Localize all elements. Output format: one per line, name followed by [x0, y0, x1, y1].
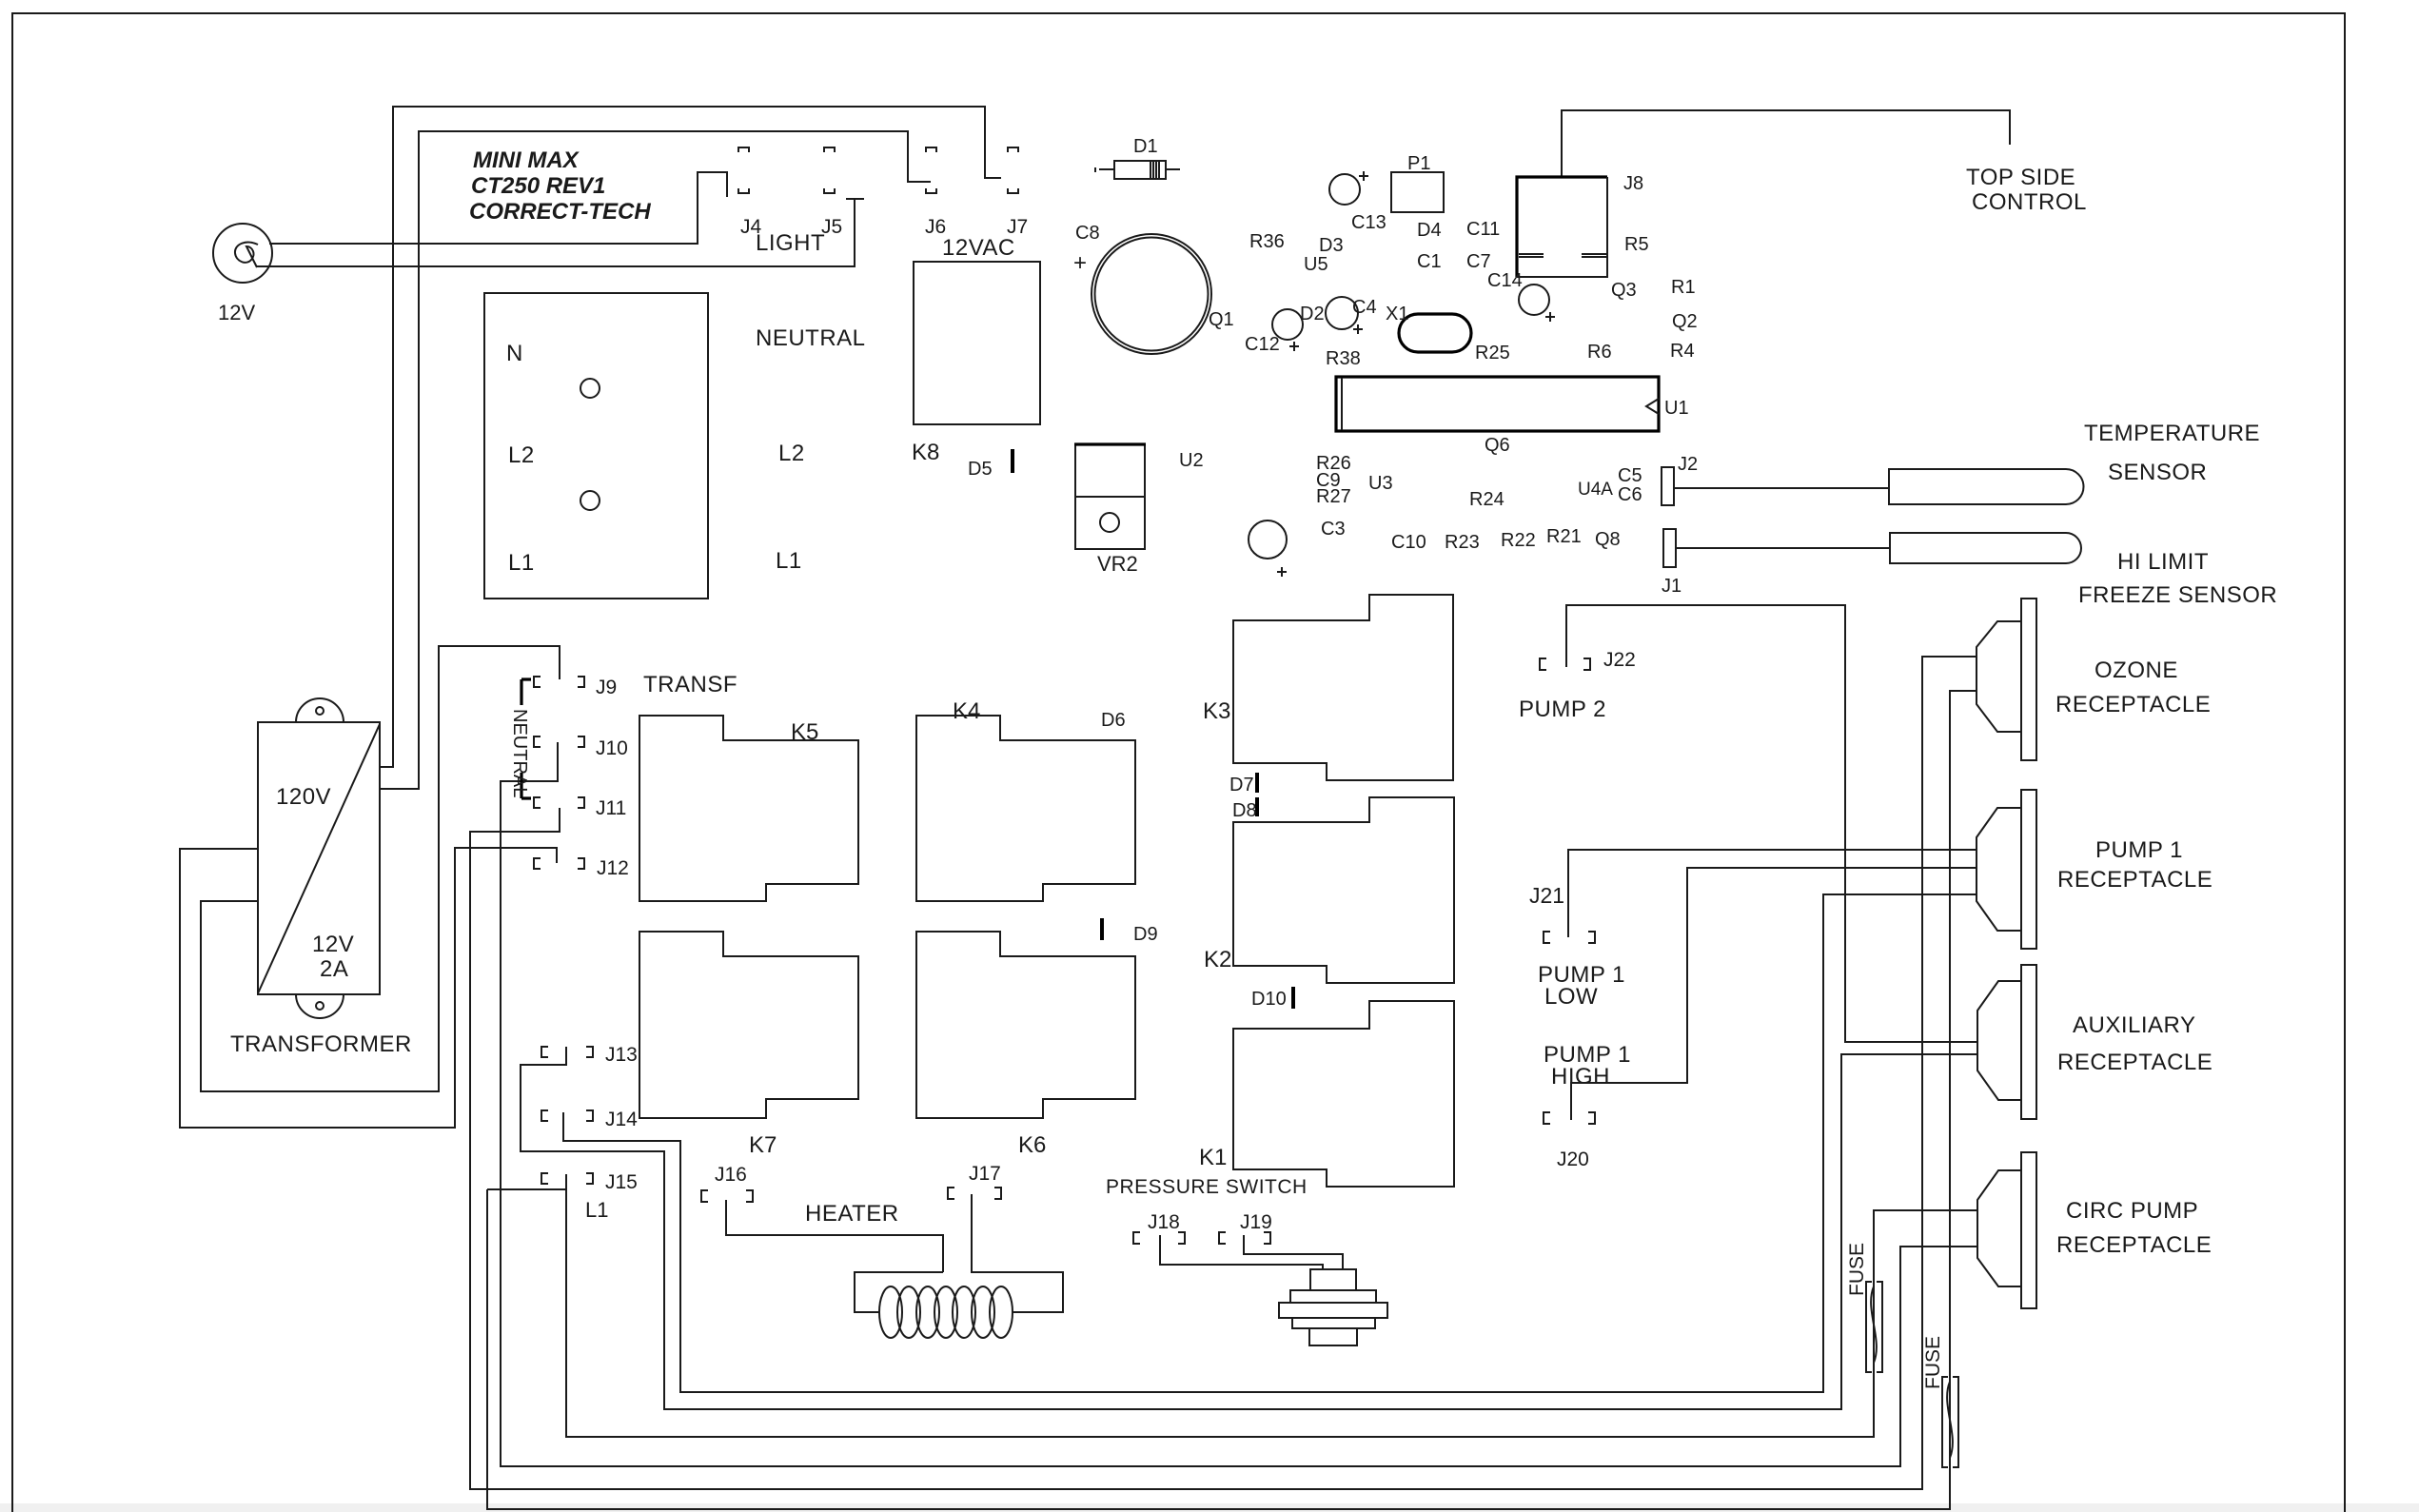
svg-text:C8: C8: [1075, 223, 1100, 244]
svg-text:R27: R27: [1316, 486, 1351, 507]
svg-text:CONTROL: CONTROL: [1972, 189, 2087, 215]
svg-text:HI LIMIT: HI LIMIT: [2117, 549, 2209, 575]
svg-text:L1: L1: [508, 550, 535, 576]
svg-text:12V: 12V: [218, 301, 255, 324]
svg-text:N: N: [506, 341, 523, 366]
svg-text:D8: D8: [1232, 800, 1257, 821]
svg-text:RECEPTACLE: RECEPTACLE: [2057, 867, 2212, 893]
svg-text:K1: K1: [1199, 1145, 1227, 1170]
svg-text:12VAC: 12VAC: [942, 235, 1015, 261]
svg-text:C1: C1: [1417, 251, 1442, 272]
svg-text:J14: J14: [605, 1109, 638, 1130]
svg-text:J19: J19: [1240, 1211, 1272, 1233]
svg-text:L1: L1: [776, 548, 802, 574]
svg-text:R38: R38: [1326, 348, 1361, 369]
svg-text:VR2: VR2: [1097, 552, 1138, 576]
svg-text:D4: D4: [1417, 220, 1442, 241]
svg-text:D1: D1: [1133, 136, 1158, 157]
svg-text:J18: J18: [1148, 1211, 1180, 1233]
svg-text:J1: J1: [1662, 576, 1681, 597]
svg-text:Q1: Q1: [1209, 309, 1234, 330]
svg-text:J11: J11: [596, 797, 626, 819]
svg-text:RECEPTACLE: RECEPTACLE: [2057, 1050, 2212, 1075]
svg-text:LIGHT: LIGHT: [756, 230, 825, 256]
svg-text:CORRECT-TECH: CORRECT-TECH: [469, 199, 651, 225]
svg-text:U3: U3: [1368, 473, 1393, 494]
svg-text:Q2: Q2: [1672, 311, 1698, 332]
svg-text:K6: K6: [1018, 1132, 1046, 1158]
svg-text:C14: C14: [1487, 270, 1523, 291]
svg-text:K5: K5: [791, 719, 818, 745]
svg-text:X1: X1: [1386, 304, 1408, 324]
svg-text:SENSOR: SENSOR: [2108, 460, 2207, 485]
svg-text:K4: K4: [953, 698, 980, 724]
svg-text:NEUTRAL: NEUTRAL: [756, 325, 866, 351]
svg-text:PUMP 2: PUMP 2: [1519, 697, 1606, 722]
svg-text:TEMPERATURE: TEMPERATURE: [2084, 421, 2260, 446]
svg-text:HIGH: HIGH: [1551, 1064, 1610, 1090]
svg-text:C5: C5: [1618, 465, 1642, 486]
svg-text:PUMP 1: PUMP 1: [2095, 837, 2183, 863]
svg-text:J15: J15: [605, 1171, 638, 1193]
svg-text:OZONE: OZONE: [2094, 658, 2178, 683]
svg-text:NEUTRAL: NEUTRAL: [509, 709, 530, 797]
svg-text:U2: U2: [1179, 450, 1204, 471]
svg-text:D7: D7: [1229, 775, 1254, 795]
svg-text:Q8: Q8: [1595, 529, 1621, 550]
svg-text:D2: D2: [1300, 304, 1325, 324]
svg-text:PRESSURE SWITCH: PRESSURE SWITCH: [1106, 1176, 1308, 1198]
svg-text:J21: J21: [1529, 883, 1564, 908]
svg-text:K8: K8: [912, 440, 939, 465]
svg-text:L2: L2: [508, 442, 535, 468]
svg-text:MINI MAX: MINI MAX: [473, 147, 580, 173]
svg-text:AUXILIARY: AUXILIARY: [2073, 1012, 2195, 1038]
svg-text:RECEPTACLE: RECEPTACLE: [2056, 1232, 2212, 1258]
svg-text:U5: U5: [1304, 254, 1328, 275]
svg-text:C11: C11: [1466, 219, 1500, 240]
svg-text:C12: C12: [1245, 334, 1280, 355]
svg-text:CT250 REV1: CT250 REV1: [471, 173, 605, 199]
svg-text:J10: J10: [596, 737, 628, 759]
svg-text:P1: P1: [1407, 153, 1430, 174]
svg-text:D10: D10: [1251, 989, 1287, 1010]
svg-text:U4A: U4A: [1578, 480, 1613, 500]
svg-text:R25: R25: [1475, 343, 1510, 363]
svg-text:FUSE: FUSE: [1922, 1336, 1944, 1389]
svg-text:J20: J20: [1557, 1149, 1589, 1170]
svg-text:K2: K2: [1204, 947, 1231, 972]
svg-text:C4: C4: [1352, 297, 1377, 318]
svg-text:D9: D9: [1133, 924, 1158, 945]
svg-text:R1: R1: [1671, 277, 1696, 298]
svg-text:J9: J9: [596, 677, 617, 698]
svg-text:R6: R6: [1587, 342, 1612, 363]
svg-text:120V: 120V: [276, 784, 331, 810]
svg-text:D6: D6: [1101, 710, 1126, 731]
svg-text:TRANSFORMER: TRANSFORMER: [230, 1031, 412, 1057]
svg-text:C6: C6: [1618, 484, 1642, 505]
svg-text:HEATER: HEATER: [805, 1201, 899, 1227]
svg-text:R36: R36: [1249, 231, 1285, 252]
svg-text:U1: U1: [1664, 398, 1689, 419]
svg-text:12V: 12V: [312, 932, 354, 957]
svg-text:R22: R22: [1501, 530, 1536, 551]
svg-text:C3: C3: [1321, 519, 1346, 540]
svg-text:Q3: Q3: [1611, 280, 1637, 301]
svg-text:J13: J13: [605, 1044, 638, 1066]
svg-text:C13: C13: [1351, 212, 1386, 233]
svg-text:2A: 2A: [320, 956, 348, 982]
svg-text:D5: D5: [968, 459, 993, 480]
svg-text:J22: J22: [1603, 649, 1636, 671]
svg-text:J12: J12: [597, 857, 629, 879]
svg-text:L2: L2: [778, 441, 805, 466]
svg-text:C7: C7: [1466, 251, 1491, 272]
svg-text:C10: C10: [1391, 532, 1426, 553]
svg-text:TRANSF: TRANSF: [643, 672, 737, 697]
svg-text:LOW: LOW: [1544, 984, 1598, 1010]
svg-text:L1: L1: [585, 1198, 608, 1222]
svg-text:R5: R5: [1624, 234, 1649, 255]
svg-text:CIRC PUMP: CIRC PUMP: [2066, 1198, 2198, 1224]
svg-text:K7: K7: [749, 1132, 777, 1158]
svg-text:J17: J17: [969, 1163, 1001, 1185]
svg-text:J2: J2: [1678, 454, 1698, 475]
svg-text:R24: R24: [1469, 489, 1504, 510]
svg-text:R4: R4: [1670, 341, 1695, 362]
svg-text:FUSE: FUSE: [1846, 1243, 1868, 1296]
svg-text:FREEZE SENSOR: FREEZE SENSOR: [2078, 582, 2277, 608]
svg-text:R21: R21: [1546, 526, 1582, 547]
svg-text:J16: J16: [715, 1164, 747, 1186]
svg-text:J8: J8: [1623, 173, 1643, 194]
svg-text:K3: K3: [1203, 698, 1230, 724]
svg-text:+: +: [1073, 250, 1087, 276]
svg-text:RECEPTACLE: RECEPTACLE: [2055, 692, 2211, 717]
svg-text:D3: D3: [1319, 235, 1344, 256]
svg-text:R23: R23: [1445, 532, 1480, 553]
svg-text:TOP SIDE: TOP SIDE: [1966, 165, 2075, 190]
svg-text:Q6: Q6: [1485, 435, 1510, 456]
